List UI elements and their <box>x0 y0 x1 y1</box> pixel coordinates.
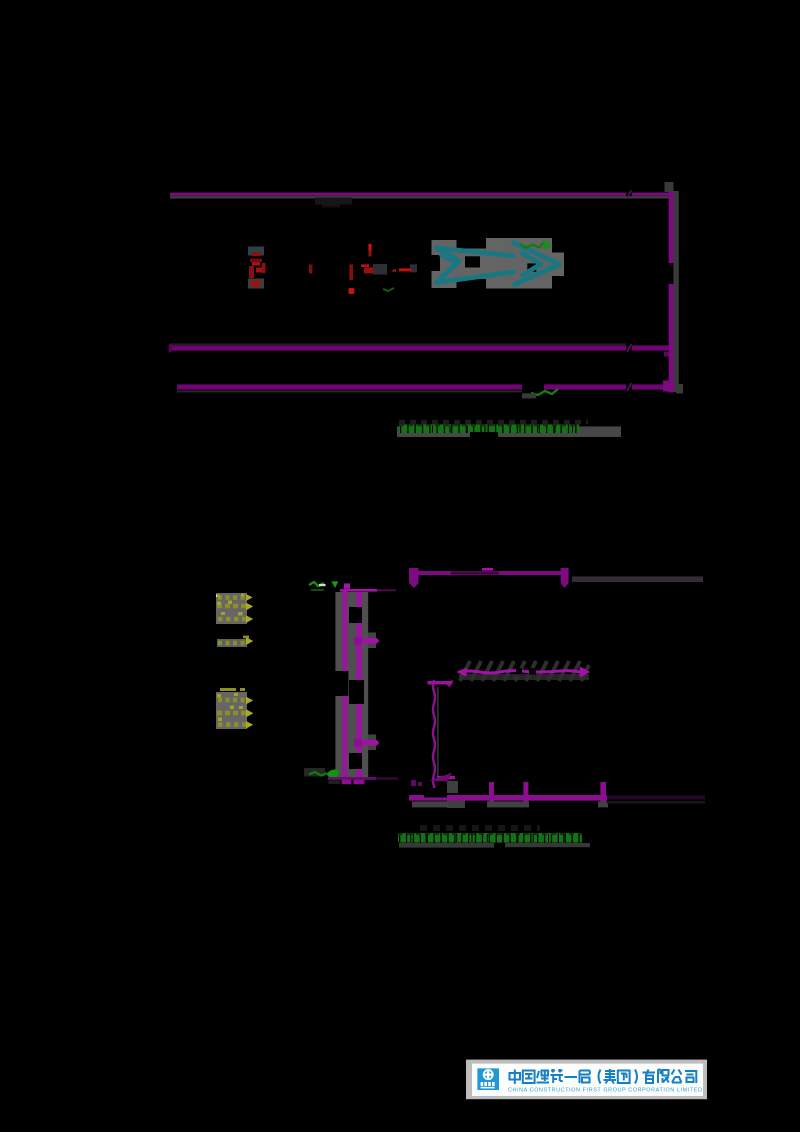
label: red tick mark mid-span <box>309 265 312 274</box>
wire: top boundary line (purple) <box>170 193 626 196</box>
label: caption 2 green text band <box>398 833 582 843</box>
node: dimension left end bar <box>409 568 419 583</box>
label: dark magenta dots at left end <box>411 780 416 786</box>
wire: column top line (magenta) <box>340 589 377 592</box>
label: dark marks left of feet <box>328 780 340 784</box>
label: red annotation cluster 2 gray box <box>373 264 387 275</box>
wire: gray shadow under bottom road line <box>177 390 522 392</box>
node: black holes inside arrow background <box>465 256 480 267</box>
局 <box>580 1071 590 1084</box>
wire: dimension line top (purple) <box>410 571 567 575</box>
symbol: rebar table row 2 <box>217 636 253 647</box>
node: gray block left of base line <box>447 781 458 793</box>
wire: bottom road line (purple) <box>177 384 522 389</box>
wire: stub line right 2 <box>368 735 376 751</box>
（ <box>599 1070 601 1084</box>
label: red annotation cluster 2 vertical dash <box>368 244 371 251</box>
node: tick 3 on base line <box>600 782 606 803</box>
label: green scribble above arrow <box>520 242 547 248</box>
wire: gray shadows under base line <box>412 801 449 807</box>
wire: gray companion of wavy leader line <box>437 687 439 780</box>
node: magenta blob top of column <box>344 583 350 588</box>
symbol: green arrow at column bottom <box>327 769 339 778</box>
label: green scribble below cluster 2 <box>383 288 394 291</box>
wire: faint dark line above middle road line <box>170 343 626 345</box>
label: red dash annotation 3 gray box <box>410 264 417 272</box>
symbol: rebar table block 3 <box>216 688 253 729</box>
node: gray block at top corner <box>665 182 674 192</box>
symbol: rebar table block 1 <box>216 593 253 624</box>
wire: gray shadow under top boundary line <box>170 196 675 199</box>
node: banner white background <box>472 1064 703 1096</box>
node: dark patch on dimension line <box>451 571 499 574</box>
node: tick break on bottom line <box>627 383 632 391</box>
label: red dash annotation 3 <box>399 268 411 271</box>
node: black break on base line left <box>424 788 447 798</box>
label: caption 2 gray strip below <box>399 843 494 848</box>
wire: gray trail right of dimension line <box>572 576 703 582</box>
label: dark green dash <box>311 589 324 591</box>
node: dimension right end bar <box>561 568 569 583</box>
label: red annotation cluster 2 vertical bar <box>349 264 353 280</box>
团 <box>618 1071 630 1084</box>
label: caption 2 dark glyph tops <box>420 825 540 831</box>
node: dotted break on grade line <box>516 668 522 675</box>
） <box>635 1070 637 1084</box>
司 <box>685 1071 696 1083</box>
wire: bottom base line (magenta) <box>409 795 607 801</box>
label: red dot below cluster 2 <box>348 288 354 294</box>
symbol: small magenta arrow lower left of grade line <box>445 680 453 688</box>
label: green scribble left of arrow <box>309 772 327 776</box>
中 <box>510 1070 521 1085</box>
node: tick 1 on base line <box>489 782 494 803</box>
label: red annotation cluster 1 gray-blue box <box>248 247 264 256</box>
一 <box>565 1076 578 1078</box>
label: green marks top of column <box>309 582 324 586</box>
label: dark illegible text under top line <box>315 198 352 205</box>
label: green scribble under bottom line gap <box>531 389 558 395</box>
wire: middle road line (purple) <box>170 345 626 350</box>
label: caption 1 dark glyph tops <box>399 420 588 425</box>
label: caption 1 black blob <box>470 432 498 441</box>
node: left end tick of middle line <box>169 344 172 352</box>
有 <box>643 1070 656 1084</box>
wire: column right magenta line <box>356 592 362 779</box>
label: caption 1 green text band <box>399 424 579 433</box>
svg-text:CHINA CONSTRUCTION FIRST GROUP: CHINA CONSTRUCTION FIRST GROUP CORPORATI… <box>508 1088 703 1094</box>
symbol: CSCEC logo blue square <box>477 1068 499 1090</box>
公 <box>672 1070 682 1083</box>
wire: hatched grade line (magenta, wavy) <box>459 671 580 673</box>
label: red annotation cluster 1 lower gray box <box>248 279 264 289</box>
限 <box>658 1070 669 1084</box>
node: black notches over column <box>349 607 362 623</box>
label: red annotation cluster 1 marks <box>252 253 261 257</box>
国 <box>523 1071 535 1084</box>
wire: stub line right 1 <box>368 633 376 649</box>
node: tick break on top line <box>627 191 632 198</box>
node: tick break on middle line <box>627 344 632 352</box>
symbol: green down arrow <box>331 581 338 588</box>
node: tick 2 on base line <box>523 782 528 803</box>
wire: column bottom dark magenta line <box>328 777 377 780</box>
建 <box>537 1070 550 1083</box>
筑 <box>551 1069 564 1083</box>
node: magenta feet under column <box>342 780 352 785</box>
label: bright dash above dimension line <box>482 568 493 571</box>
wire: right vertical boundary line (purple) <box>669 192 674 264</box>
label: caption 1 gray strip <box>397 426 621 437</box>
node: junction blob bottom line at vertical <box>663 381 674 392</box>
wire: column left magenta line <box>342 589 347 781</box>
集 <box>604 1069 617 1084</box>
node: banner gray edge <box>466 1060 707 1100</box>
symbol: hatch band (diagonal gray stripes) <box>459 674 589 680</box>
label: red annotation cluster 2 digits <box>361 264 369 267</box>
wire: gray band right of vertical boundary <box>673 191 678 392</box>
label: gray patch behind green scribble <box>304 768 325 777</box>
wire: bottom stub of wavy line <box>437 776 455 779</box>
wire: top stub of wavy line <box>427 681 452 684</box>
node: gray background blobs behind flow arrow <box>432 240 441 255</box>
symbol: teal flow-direction arrow <box>437 243 560 285</box>
node: right solid arrowhead of grade line <box>580 666 590 677</box>
wire: faint dark extension right of base line <box>607 796 705 800</box>
wire: wavy vertical leader line <box>433 680 435 798</box>
node: left arrowhead of grade line <box>456 668 466 677</box>
symbol: dark magenta arrow at base line left end <box>429 773 452 782</box>
node: column gray band <box>335 592 368 779</box>
node: gray foot at bottom of vertical <box>676 384 683 394</box>
